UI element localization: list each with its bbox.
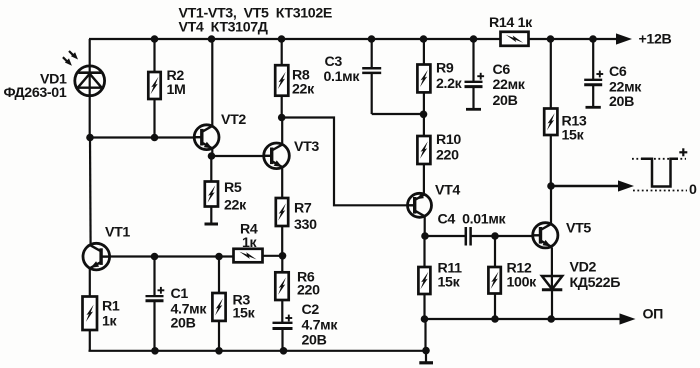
svg-text:R14 1к: R14 1к [489, 15, 533, 31]
svg-text:+12В: +12В [639, 32, 672, 48]
svg-text:0.1мк: 0.1мк [324, 69, 361, 85]
svg-text:2.2к: 2.2к [436, 76, 463, 92]
junction R3 bottom rail [215, 347, 223, 355]
svg-text:R1: R1 [102, 299, 120, 315]
transistor VT4 [408, 193, 432, 217]
wire output OP rail [425, 318, 621, 320]
wire VD1 node down to VT1 collector [89, 138, 92, 246]
svg-text:330: 330 [294, 217, 317, 233]
svg-text:ФД263-01: ФД263-01 [4, 85, 67, 101]
svg-text:C6: C6 [493, 62, 511, 78]
svg-text:C4 0.01мк: C4 0.01мк [438, 212, 507, 228]
svg-text:15к: 15к [233, 306, 256, 322]
resistor R7 [276, 198, 288, 256]
svg-text:C3: C3 [325, 54, 343, 70]
svg-text:15к: 15к [438, 275, 461, 291]
wire VT3 emitter down to R7 [281, 167, 283, 199]
svg-text:C6: C6 [609, 64, 627, 80]
net +12V output arrow [616, 33, 632, 44]
svg-text:20В: 20В [493, 93, 518, 109]
resistor R3 [212, 257, 225, 351]
wire VT3 collector to VT4 base [282, 118, 408, 206]
svg-text:VT3: VT3 [294, 139, 319, 155]
wire VT4 collector down [424, 217, 426, 236]
wire VT1 emitter to R1 [89, 268, 91, 297]
svg-text:VT1: VT1 [105, 225, 130, 241]
svg-text:VD2: VD2 [570, 260, 597, 276]
wire VT1 base to R4 [109, 255, 233, 257]
resistor R4 [234, 249, 283, 262]
resistor R13 [544, 39, 557, 186]
svg-text:R7: R7 [294, 201, 312, 217]
junction VT2 collector rail [208, 35, 216, 43]
svg-text:220: 220 [436, 148, 459, 164]
svg-text:0: 0 [689, 182, 697, 198]
svg-text:20В: 20В [171, 316, 196, 332]
capacitor C6 (first) [465, 39, 485, 109]
wire VD1 node to VT2 base [90, 136, 195, 138]
wire VT2 emitter to VT3 base [211, 155, 264, 157]
svg-text:ОП: ОП [643, 307, 664, 323]
junction R8/VT3 collector [278, 114, 286, 122]
capacitor C2 [273, 315, 293, 351]
svg-text:VT2: VT2 [221, 112, 246, 128]
svg-text:1к: 1к [102, 314, 118, 330]
resistor R9 [417, 39, 430, 136]
wire VT2 emitter down [211, 148, 213, 156]
wire C4 to VT5 base [471, 235, 533, 237]
junction R2 bottom [151, 134, 159, 142]
capacitor C1 [146, 257, 165, 351]
junction C6a top rail [470, 35, 478, 43]
svg-text:22мк: 22мк [493, 77, 526, 93]
wire node to C4 [425, 235, 466, 237]
junction R4/R7/R6 node [279, 252, 287, 260]
pulse output arrow [551, 185, 620, 187]
svg-text:C2: C2 [302, 302, 320, 318]
junction R12 bottom [491, 315, 499, 323]
resistor R14 [501, 32, 529, 46]
resistor R2 [148, 39, 160, 138]
svg-text:R10: R10 [436, 132, 461, 148]
svg-text:22к: 22к [224, 198, 247, 214]
capacitor C3 [362, 39, 423, 114]
junction R12 top node [491, 232, 499, 240]
resistor R5 with leads [205, 156, 218, 223]
wire VT3 collector up [281, 118, 283, 146]
wire VT5 collector up [550, 186, 552, 224]
pulse waveform symbol [632, 159, 687, 191]
capacitor C6 (second) [584, 39, 603, 107]
capacitor C4 [466, 227, 471, 246]
svg-text:4.7мк: 4.7мк [302, 318, 339, 334]
svg-text:VT4: VT4 [435, 183, 460, 199]
junction R1 bottom rail [151, 347, 159, 355]
junction C2 bottom rail [280, 347, 288, 355]
svg-text:VT5: VT5 [566, 221, 591, 237]
junction C1 top [151, 253, 159, 261]
junction VT2 emitter node [208, 152, 216, 160]
svg-text:VT4 КТ3107Д: VT4 КТ3107Д [179, 20, 268, 36]
svg-text:22к: 22к [292, 82, 315, 98]
transistor VT5 [533, 223, 558, 248]
resistor R12 [488, 236, 500, 319]
resistor R10 [417, 136, 430, 195]
junction C3 top rail [368, 35, 376, 43]
wire ground bottom rail [89, 350, 427, 352]
junction R13 top rail [547, 35, 555, 43]
svg-text:R9: R9 [436, 61, 454, 77]
svg-text:1M: 1M [167, 82, 186, 98]
light arrows into photodiode [69, 51, 74, 56]
svg-text:КД522Б: КД522Б [570, 275, 621, 291]
junction pulse output node [547, 182, 555, 190]
svg-text:1к: 1к [242, 235, 258, 251]
junction R11 bottom [421, 315, 429, 323]
junction VT4 collector node [421, 232, 429, 240]
junction ground node [422, 347, 430, 355]
ground symbol [419, 351, 433, 363]
junction VD2 bottom [547, 315, 555, 323]
wire VT5 emitter to VD2 [551, 248, 553, 290]
wire +12V top rail (left of R14) [89, 38, 501, 40]
junction R8 top rail [278, 35, 286, 43]
transistor VT1 [83, 243, 110, 270]
wire OP node to ground rail [424, 319, 426, 351]
svg-text:20В: 20В [609, 94, 634, 110]
resistor R11 [418, 236, 430, 319]
transistor VT2 [194, 125, 219, 150]
wire +12V top rail (right of R14) [529, 38, 619, 40]
resistor R1 [83, 297, 98, 351]
resistor R8 [275, 39, 288, 118]
diode VD2 [542, 276, 562, 319]
junction R9/R10/C3 node [420, 111, 428, 119]
label waveform plus [679, 151, 687, 153]
ground bar below R5 [205, 223, 219, 226]
photodiode VD1 [75, 66, 105, 96]
svg-text:100к: 100к [507, 275, 538, 291]
svg-text:15к: 15к [562, 128, 585, 144]
junction VD1 bottom node [86, 134, 94, 142]
transistor VT3 [264, 143, 290, 169]
resistor R6 [275, 256, 288, 323]
svg-text:C1: C1 [171, 286, 189, 302]
junction C6b top rail [589, 35, 597, 43]
wire VT2 collector to rail [211, 39, 213, 126]
svg-text:220: 220 [297, 283, 320, 299]
junction R9 top rail [420, 35, 428, 43]
junction R3 top [215, 253, 223, 261]
svg-text:R5: R5 [224, 180, 242, 196]
svg-text:20В: 20В [302, 333, 327, 349]
net OP output arrow [620, 313, 636, 324]
wire VD1 anode to top rail [89, 39, 91, 138]
junction VD1/R2 rail [151, 35, 159, 43]
